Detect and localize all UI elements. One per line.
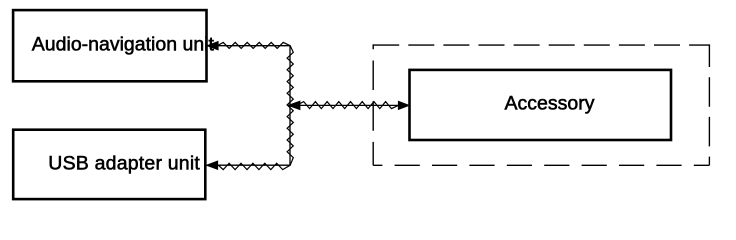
box Accessory [410, 70, 672, 140]
box USB adapter unit [13, 130, 205, 199]
wire bottom zigzag [218, 163, 290, 169]
dashed enclosure bottom edge [373, 164, 709, 166]
arrowhead into audio-navigation unit [207, 42, 218, 50]
wire middle zigzag [297, 102, 399, 109]
svg-text:USB adapter unit: USB adapter unit [48, 153, 200, 175]
wire middle straight line [288, 104, 409, 106]
wire vertical zigzag [287, 46, 293, 166]
wire top straight line (C-shaped run to vertical bus) [206, 46, 290, 166]
wire top zigzag [218, 42, 291, 48]
svg-text:Audio-navigation unit: Audio-navigation unit [32, 33, 215, 55]
arrowhead into accessory [398, 101, 409, 109]
dashed enclosure right edge [708, 44, 710, 165]
dashed enclosure left edge [372, 44, 374, 165]
svg-text:Accessory: Accessory [505, 93, 595, 115]
arrowhead toward vertical bus [288, 101, 300, 110]
arrowhead into USB adapter unit [206, 161, 217, 169]
dashed enclosure top edge [373, 44, 709, 46]
box Audio-navigation unit [13, 10, 206, 81]
